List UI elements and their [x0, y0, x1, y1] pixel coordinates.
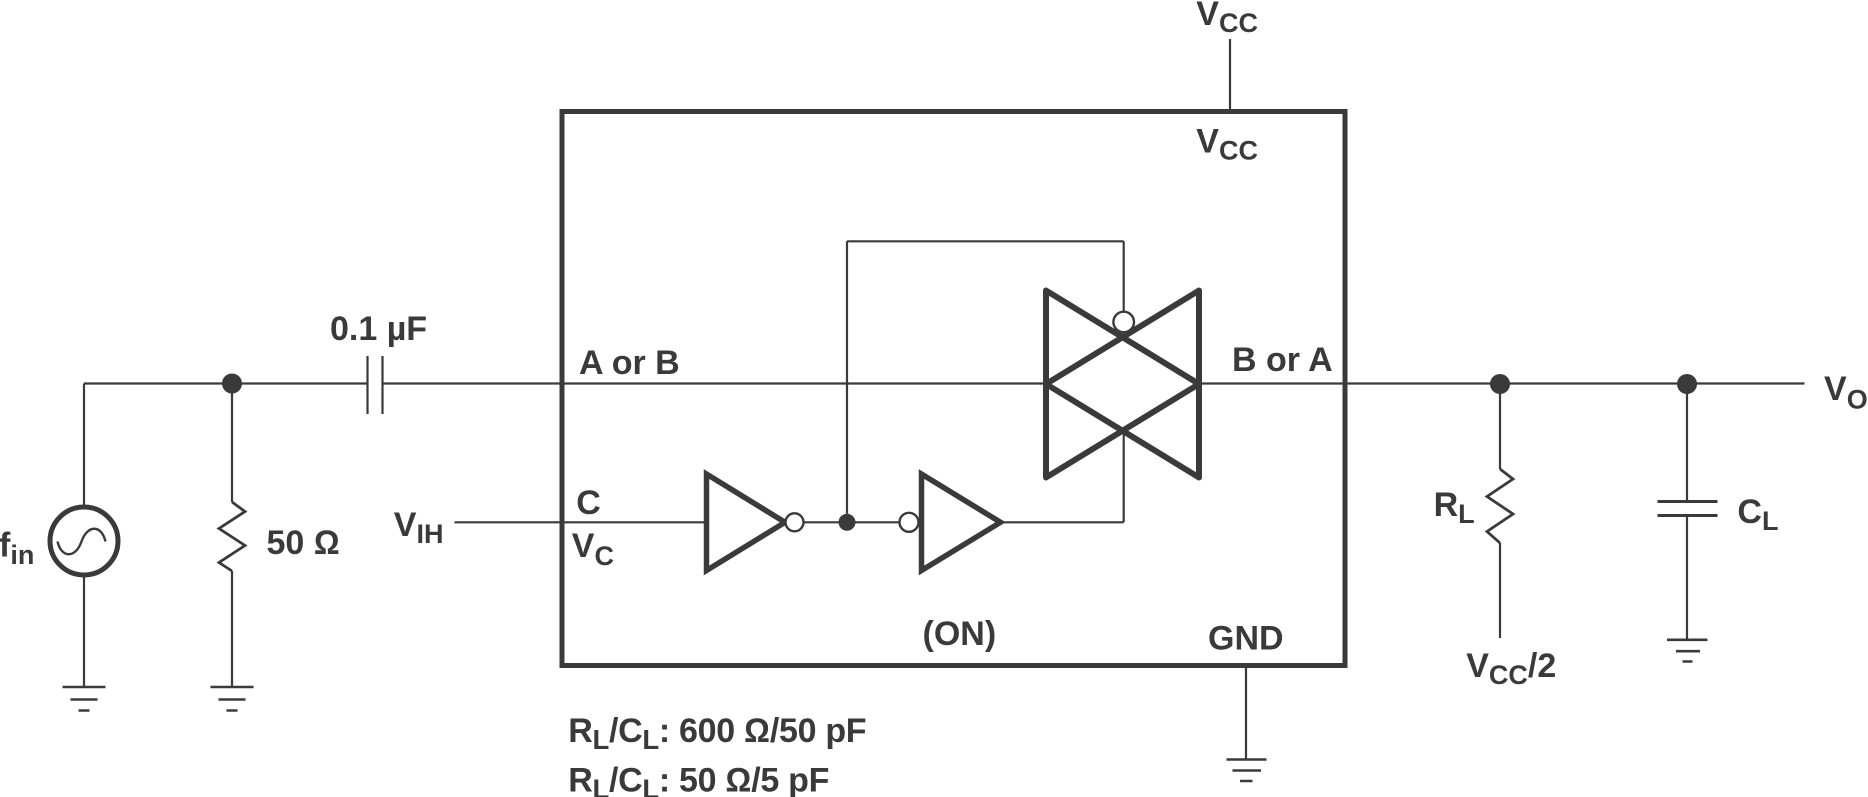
transmission gate U3 (fills) [1046, 291, 1199, 478]
wire: fin source top lead [83, 384, 85, 508]
svg-text:C: C [576, 484, 601, 522]
svg-text:RL/CL: 600 Ω/50 pF: RL/CL: 600 Ω/50 pF [568, 712, 866, 755]
wire: between bubbles [804, 521, 900, 523]
bubble (buffer input) [900, 513, 919, 532]
svg-text:B or A: B or A [1232, 341, 1333, 379]
wire: resistor bottom lead [231, 571, 233, 687]
node: control junction [839, 514, 856, 531]
wire: control feedback top [847, 240, 1124, 242]
svg-text:A or B: A or B [579, 344, 680, 382]
ground (GND pin) [1227, 760, 1267, 782]
wire: down to TG bubble [1123, 241, 1125, 312]
source fin [50, 507, 118, 575]
wire: RL bottom lead [1499, 543, 1501, 638]
node: junction at 50 ohm resistor [222, 374, 242, 394]
ground (50 ohm) [211, 687, 254, 711]
buffer U2 [922, 474, 1001, 571]
resistor 50 ohm [219, 502, 245, 571]
ground (CL) [1667, 640, 1708, 662]
node: CL junction [1677, 374, 1697, 394]
wire: RL top lead [1499, 384, 1501, 469]
inverter U1 [707, 474, 786, 571]
wire: resistor top lead [231, 384, 233, 503]
wire: Vcc stub [1229, 39, 1231, 109]
svg-text:0.1 µF: 0.1 µF [330, 310, 427, 348]
wire: fin source bottom lead [83, 575, 85, 688]
svg-text:50 Ω: 50 Ω [267, 524, 340, 562]
wire: main signal A-B row [84, 382, 1805, 384]
capacitor CL [1658, 502, 1718, 516]
wire: control feedback vertical [846, 241, 848, 514]
DUT box [562, 112, 1345, 666]
wire: buffer output to TG [1001, 429, 1124, 523]
wire: GND stub [1245, 667, 1247, 759]
capacitor 0.1 uF [368, 356, 383, 414]
ground (fin) [63, 687, 106, 711]
transmission gate U3 (outlines) [1046, 291, 1199, 478]
bubble (TG control) [1113, 312, 1134, 333]
svg-text:GND: GND [1208, 620, 1284, 658]
resistor RL [1487, 469, 1513, 543]
wire: CL top lead [1686, 384, 1688, 500]
wire: control input [455, 521, 707, 523]
wire: CL bottom lead [1686, 517, 1688, 639]
svg-text:(ON): (ON) [923, 615, 997, 653]
node: RL junction [1490, 374, 1510, 394]
bubble (inverter output) [786, 513, 804, 531]
